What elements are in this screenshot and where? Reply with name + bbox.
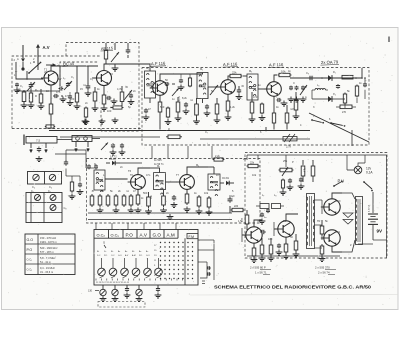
switch trimmer slashes — [100, 276, 104, 278]
svg-text:R₁: R₁ — [35, 88, 38, 92]
note underlines — [260, 269, 271, 271]
bypass cap C2 of T1 — [53, 95, 55, 97]
oscillator coil L2 — [76, 91, 78, 93]
svg-text:470: 470 — [253, 95, 258, 99]
resistor R35 — [261, 243, 263, 245]
svg-text:520 - 1600 kHz: 520 - 1600 kHz — [40, 246, 58, 250]
svg-text:100: 100 — [268, 237, 273, 241]
strip left caps — [95, 164, 97, 166]
svg-text:M₁: M₁ — [146, 66, 149, 70]
svg-text:C₄: C₄ — [32, 185, 35, 189]
resistor R30 — [312, 164, 314, 166]
TR2 windings — [356, 199, 357, 202]
switch bottom ticks — [95, 279, 97, 281]
L5 winding circles — [76, 137, 80, 141]
coil table small box — [28, 172, 62, 185]
switch block outer box — [94, 230, 198, 286]
svg-text:M₃: M₃ — [249, 69, 252, 73]
L4 output leads — [30, 143, 32, 148]
res R43 — [282, 179, 284, 181]
wire bus to strip left — [86, 167, 94, 169]
transistor T8 AF preamp — [246, 227, 262, 243]
resistor R1 base bias — [23, 90, 25, 92]
svg-text:A₁: A₁ — [118, 250, 120, 253]
IF transformer IFT2 — [197, 73, 208, 99]
svg-text:2,2k: 2,2k — [215, 155, 220, 158]
transistor T10 output upper — [324, 199, 340, 215]
strip resistor R27 — [208, 196, 210, 198]
top row extra cap Cx2 — [145, 108, 147, 110]
trimmer C20 below block — [114, 285, 116, 289]
strip resistor R25 — [163, 194, 165, 196]
svg-text:560: 560 — [160, 105, 165, 109]
wire lamp branch — [346, 155, 348, 170]
svg-text:D.C: D.C — [97, 255, 101, 257]
svg-text:OA 81: OA 81 — [222, 177, 230, 180]
wire IFT4 to T6 — [105, 178, 128, 180]
svg-text:31 - 15,6 m: 31 - 15,6 m — [40, 270, 53, 274]
svg-text:C₉: C₉ — [306, 71, 309, 75]
transistor T11 output lower — [324, 230, 340, 246]
strip left grounds — [99, 208, 101, 211]
T5 collector wire — [274, 75, 277, 82]
svg-text:4,7: 4,7 — [58, 77, 62, 81]
wire top of bias resistors — [17, 90, 60, 92]
svg-text:270: 270 — [342, 111, 347, 114]
strip resistor R26 — [198, 195, 200, 197]
small cap TL — [16, 83, 18, 84]
svg-text:A₂: A₂ — [125, 250, 127, 253]
transistor T3 first IF amp — [153, 81, 168, 96]
transistor T1 OC44 converter — [44, 71, 58, 85]
svg-text:C: C — [293, 81, 295, 85]
svg-text:P.O: P.O — [104, 255, 108, 257]
svg-text:7,5: 7,5 — [36, 139, 41, 143]
T2 emitter bypass C6 — [106, 97, 108, 99]
wire to T8 base — [229, 206, 231, 213]
big box circles — [35, 195, 41, 201]
page edge shadow line — [190, 294, 398, 297]
coupling coil L6 — [315, 88, 318, 90]
strip cap C18 — [173, 195, 175, 197]
IF transformer IFT5 — [154, 173, 166, 190]
strip ground center — [169, 214, 171, 217]
svg-text:D: D — [94, 162, 96, 166]
detector cap C31 — [337, 84, 339, 85]
resistor R17 — [295, 98, 297, 100]
T5 emitter resistor R15 — [273, 96, 275, 104]
ground under R2 — [40, 104, 42, 107]
coil L3 in mixer box — [105, 48, 107, 50]
misc cap C14 — [185, 102, 187, 104]
svg-text:2,7k: 2,7k — [286, 145, 292, 149]
link cap C17 — [121, 143, 123, 145]
cap C30 on top wire — [310, 76, 312, 80]
svg-text:47n: 47n — [56, 90, 61, 94]
cap C23 below block — [157, 285, 159, 288]
wire T6 to IFT5 — [150, 167, 160, 169]
trim CT6 — [172, 88, 179, 96]
mixer box ground — [114, 66, 116, 69]
collector wire T1 — [51, 66, 60, 71]
svg-text:1 x 56 71: 1 x 56 71 — [255, 271, 267, 275]
svg-text:150 - 270 kHz: 150 - 270 kHz — [40, 236, 57, 240]
top row extra resistor Rx1 — [85, 107, 87, 109]
svg-text:R: R — [35, 94, 37, 98]
detector drop wire — [351, 130, 353, 146]
frequency table box — [25, 234, 75, 275]
T6 collector wire — [138, 168, 150, 175]
ground under L4 — [38, 156, 40, 159]
dashed RF section box — [12, 56, 100, 129]
wave-change switch S1a — [28, 72, 30, 74]
T3 collector wire — [160, 74, 170, 81]
svg-text:A: A — [17, 57, 19, 61]
neutralizing cap C8 — [165, 83, 167, 85]
res R44 — [189, 77, 191, 78]
svg-text:C₇: C₇ — [205, 130, 208, 134]
wire T2 collector to IFT1 — [113, 64, 150, 66]
svg-text:220: 220 — [234, 205, 239, 208]
volume pot P2 25k — [279, 169, 281, 171]
svg-text:8,2k: 8,2k — [182, 96, 188, 100]
svg-text:SCHEMA ELETTRICO DEL RADIORICE: SCHEMA ELETTRICO DEL RADIORICEVITORE G.B… — [214, 284, 372, 289]
svg-text:D₁: D₁ — [104, 251, 107, 253]
big box grid — [26, 202, 62, 204]
svg-text:C₃: C₃ — [90, 77, 93, 81]
T7 collector wire — [187, 167, 208, 175]
svg-text:C₈: C₈ — [64, 206, 67, 210]
tuning capacitor C1 section — [30, 82, 32, 85]
battery B1 9V — [372, 204, 374, 213]
T9 bias resistor R38 — [295, 239, 297, 241]
resistor R16 — [286, 111, 288, 113]
input contact ticks — [15, 62, 17, 70]
strip resistor R28 2,2k — [213, 159, 214, 161]
coupling cap C26 — [260, 231, 262, 233]
svg-text:130: 130 — [88, 290, 93, 293]
resistor R2 — [40, 92, 42, 94]
trimmer CT3 — [124, 90, 132, 100]
T8 base wire — [242, 234, 246, 236]
wire into T2 base — [92, 77, 96, 79]
svg-text:P.O: P.O — [139, 255, 143, 257]
wire T7 to IFT6 — [208, 166, 214, 168]
wire IFT5 to T7 — [166, 181, 178, 183]
svg-text:G.O: G.O — [27, 238, 34, 242]
switch S2a — [311, 119, 313, 121]
T9 base wire — [274, 228, 278, 230]
svg-text:M₅: M₅ — [196, 163, 199, 167]
pilot lamp LP1 — [354, 166, 362, 174]
avc cluster cap Ca — [290, 86, 292, 87]
svg-text:P.U: P.U — [338, 179, 344, 184]
svg-text:B₂: B₂ — [111, 251, 113, 253]
svg-text:D₁: D₁ — [333, 70, 336, 74]
detector diode D2 OA79 — [328, 96, 332, 102]
T6 emitter resistor R22 — [137, 189, 139, 195]
top rail stubs — [257, 155, 259, 160]
svg-text:4x 505: 4x 505 — [154, 159, 162, 162]
svg-text:R: R — [168, 127, 170, 131]
svg-text:51 - 41 m: 51 - 41 m — [40, 260, 51, 264]
svg-text:O.C₁: O.C₁ — [27, 258, 33, 262]
link cap C16 — [112, 143, 114, 145]
svg-text:A.F 116: A.F 116 — [269, 62, 284, 68]
svg-text:560: 560 — [143, 191, 148, 195]
svg-text:T11: T11 — [336, 230, 341, 234]
resistor R32 220 — [231, 209, 232, 211]
frequency table rows — [25, 243, 75, 245]
wire feed to strip — [66, 175, 80, 177]
cap C33 left of strip — [65, 160, 67, 162]
svg-text:F.M: F.M — [189, 235, 195, 239]
IF transformer IFT1 — [145, 71, 156, 98]
wire stub y150 — [55, 153, 86, 155]
resistor R42 left of strip — [71, 180, 73, 182]
svg-text:1949 - 1073 m: 1949 - 1073 m — [40, 240, 57, 244]
resistor R40 — [321, 244, 323, 246]
svg-text:M₂: M₂ — [200, 67, 203, 71]
switch trimmer row — [98, 268, 106, 276]
top row extra cap Cx1 — [69, 94, 71, 96]
cap C9 — [238, 88, 240, 90]
osc wires — [60, 65, 98, 67]
cap C28 — [289, 178, 291, 180]
svg-text:1,2k: 1,2k — [230, 105, 236, 109]
T4 base wire — [208, 86, 221, 88]
wire stubs down from bus — [265, 127, 267, 131]
load resistor R41 horizontal — [340, 105, 352, 109]
dashed IF/detector section box — [142, 68, 369, 146]
block right stubs — [198, 239, 214, 241]
IF transformer IFT6 — [208, 174, 220, 190]
trimmer C19 below block — [102, 285, 104, 289]
misc vertical resistor R21 — [216, 102, 218, 104]
svg-text:T10: T10 — [336, 199, 341, 203]
cap C35 — [180, 79, 182, 81]
dashed oscillator box OC44 — [60, 62, 98, 86]
phase splitter resistor R39 — [321, 224, 323, 226]
resistor R10 vertical — [196, 102, 198, 104]
resistor R31 22k — [247, 165, 249, 167]
transistor T5 third IF amp — [267, 82, 282, 97]
svg-text:P: P — [292, 160, 294, 164]
svg-text:A.F 116: A.F 116 — [223, 61, 238, 67]
resistor R5 agc — [94, 90, 96, 92]
svg-text:47n: 47n — [146, 173, 151, 177]
svg-text:A.M: A.M — [167, 233, 175, 238]
misc cap C13 — [206, 104, 208, 106]
IF transformer IFT3 — [247, 74, 258, 100]
wire T10 to TR2 — [342, 193, 355, 199]
A.V lead wire — [37, 66, 39, 70]
wire antenna to T1 base — [16, 71, 43, 79]
resistor R9 — [177, 100, 179, 102]
svg-text:5,8 - 7,3 MHz: 5,8 - 7,3 MHz — [40, 256, 56, 260]
detector resistor R19 — [344, 93, 346, 95]
svg-text:10k: 10k — [204, 191, 209, 195]
ferrite rod coil box L4 — [26, 137, 57, 144]
node top right — [361, 68, 363, 78]
svg-text:22k: 22k — [232, 71, 237, 75]
oscillator coil L1 left — [30, 89, 32, 93]
svg-text:O.C: O.C — [111, 255, 115, 257]
resistor R13 — [251, 100, 253, 102]
top row extra res Rx2 — [167, 107, 169, 109]
trimmer CT2 mixer — [111, 52, 119, 62]
svg-text:2 x 505 80 P: 2 x 505 80 P — [250, 266, 266, 270]
svg-text:25k: 25k — [283, 159, 288, 163]
svg-text:S: S — [103, 241, 105, 245]
svg-text:L₆: L₆ — [317, 83, 319, 87]
svg-text:A.V: A.V — [140, 233, 148, 238]
trimmer C22 below block — [138, 285, 140, 289]
ferrite rod coil box L5 — [72, 136, 92, 142]
tone caps — [261, 213, 263, 215]
detector top wire — [290, 77, 362, 79]
TR2 wires — [342, 192, 355, 194]
svg-text:G.O: G.O — [153, 233, 162, 238]
transistor T6 — [131, 175, 146, 190]
antenna A.V arrow — [37, 50, 39, 66]
svg-text:9,4 - 19 MHz: 9,4 - 19 MHz — [40, 266, 56, 270]
volume feed resistor R20 — [356, 85, 358, 87]
antenna input down-arrow — [22, 45, 24, 58]
stray mark top right — [388, 37, 390, 43]
switch contact grid — [160, 242, 161, 243]
strip input diode D3 — [106, 162, 110, 164]
switch S2b — [330, 122, 332, 124]
main supply bus top section — [49, 130, 310, 132]
T9 emitter resistor R37 — [285, 237, 287, 244]
rod link wire — [57, 139, 72, 141]
driver transformer TR1 — [307, 194, 315, 249]
decoupling R7 horizontal — [112, 107, 114, 109]
T3 emitter resistor R8 — [159, 95, 161, 102]
svg-text:9V: 9V — [377, 229, 384, 234]
node dot base T1 — [26, 78, 28, 80]
svg-text:D₂: D₂ — [333, 92, 336, 96]
svg-text:2x OA 79: 2x OA 79 — [321, 59, 339, 65]
T2 emitter resistor R4 — [103, 86, 105, 96]
svg-text:G.O: G.O — [118, 255, 122, 257]
svg-text:TR: TR — [317, 219, 321, 223]
cap C24 — [300, 177, 302, 179]
svg-text:A.V: A.V — [43, 45, 50, 50]
transistor T2 mixer — [97, 71, 112, 86]
bus resistor Rb1 — [166, 136, 168, 138]
T8 load resistor R34 — [246, 213, 248, 215]
top row extra res Rx3 — [261, 103, 263, 105]
dashed bottom strip — [98, 302, 145, 308]
svg-text:4,7k: 4,7k — [177, 95, 181, 101]
output transformer TR2 — [356, 197, 363, 245]
T10 base wire — [322, 206, 324, 208]
svg-text:OA 85: OA 85 — [109, 158, 116, 161]
inter-section wires — [151, 146, 153, 159]
right edge cap C32 — [364, 83, 366, 84]
svg-text:C₆: C₆ — [49, 185, 52, 189]
switch header cells — [108, 230, 110, 239]
switch header row — [94, 237, 178, 239]
svg-text:577 - 187 m: 577 - 187 m — [40, 250, 54, 254]
input transformer IFT4 — [94, 170, 105, 190]
coupling cap C25 40uF — [229, 197, 231, 199]
resistor R36 — [270, 243, 272, 245]
dashed middle IF strip box — [87, 159, 261, 224]
transistor T7 — [180, 175, 195, 190]
T11 collector wire — [332, 246, 342, 252]
avc cluster cap Cc — [302, 86, 304, 87]
audio top rail — [247, 154, 387, 156]
wire T3 collector to IFT2 — [170, 73, 203, 75]
svg-text:B₁: B₁ — [97, 251, 99, 253]
T4 collector load R11 22k — [229, 75, 231, 77]
pot with diagonal marks — [283, 137, 297, 141]
svg-text:C₁: C₁ — [20, 84, 23, 88]
scan noise speckles — [129, 70, 132, 73]
coupling cap C3 — [59, 88, 61, 90]
cap C7 — [130, 93, 132, 95]
svg-text:21 23 25 27 29 31 33 35 37 39: 21 23 25 27 29 31 33 35 37 39 41 43 — [96, 282, 130, 284]
diode load resistor R18 — [342, 75, 353, 79]
trimmer CT4 — [210, 85, 218, 95]
strip resistor R24 — [148, 195, 150, 197]
detector diode D1 OA79 — [328, 75, 332, 81]
dashed AF amplifier section box — [245, 153, 387, 259]
resistor R29 — [302, 164, 304, 166]
oscillator cap C4 — [87, 84, 89, 87]
svg-text:2 x 56 74: 2 x 56 74 — [318, 271, 330, 275]
right stub marks — [207, 267, 208, 269]
TR1 secondary taps — [315, 199, 323, 201]
emitter bypass C10 — [277, 99, 279, 101]
svg-text:O.C₁: O.C₁ — [111, 232, 120, 237]
L4 cap C15 — [38, 147, 40, 149]
audio right vertical wire — [386, 155, 388, 258]
grounds on bus — [84, 119, 86, 122]
tone network coil boxes — [260, 204, 269, 209]
collector load R6 — [121, 90, 123, 92]
bus resistor Rb2 — [45, 126, 46, 128]
svg-text:A₃: A₃ — [139, 250, 141, 253]
PU contact — [333, 185, 335, 187]
output core arrows — [343, 213, 353, 218]
svg-text:L₂: L₂ — [63, 76, 65, 80]
svg-text:G.O: G.O — [146, 255, 150, 257]
TR1 windings — [307, 197, 308, 200]
padder cap C5 — [127, 48, 129, 50]
svg-text:M₄: M₄ — [157, 164, 160, 168]
emitter resistor R3 of T1 — [50, 85, 52, 104]
transistor T4 second IF amp — [221, 80, 236, 95]
detector diode D4 — [220, 182, 224, 184]
cap C21 below block — [126, 285, 128, 288]
T4 emitter resistor R12 — [227, 94, 229, 101]
svg-text:40μF: 40μF — [229, 195, 235, 198]
svg-text:L₈: L₈ — [274, 193, 276, 197]
svg-text:A.M: A.M — [132, 254, 136, 257]
switch stems — [101, 258, 103, 268]
svg-text:B: B — [92, 189, 94, 193]
T4 collector wire — [227, 76, 230, 80]
dashed mixer box AF115 — [66, 43, 139, 132]
switch S1b — [33, 61, 35, 63]
T11 base wire — [322, 237, 324, 239]
cap C34 left of strip — [79, 182, 81, 184]
T8 emitter resistor R33 — [253, 243, 255, 248]
